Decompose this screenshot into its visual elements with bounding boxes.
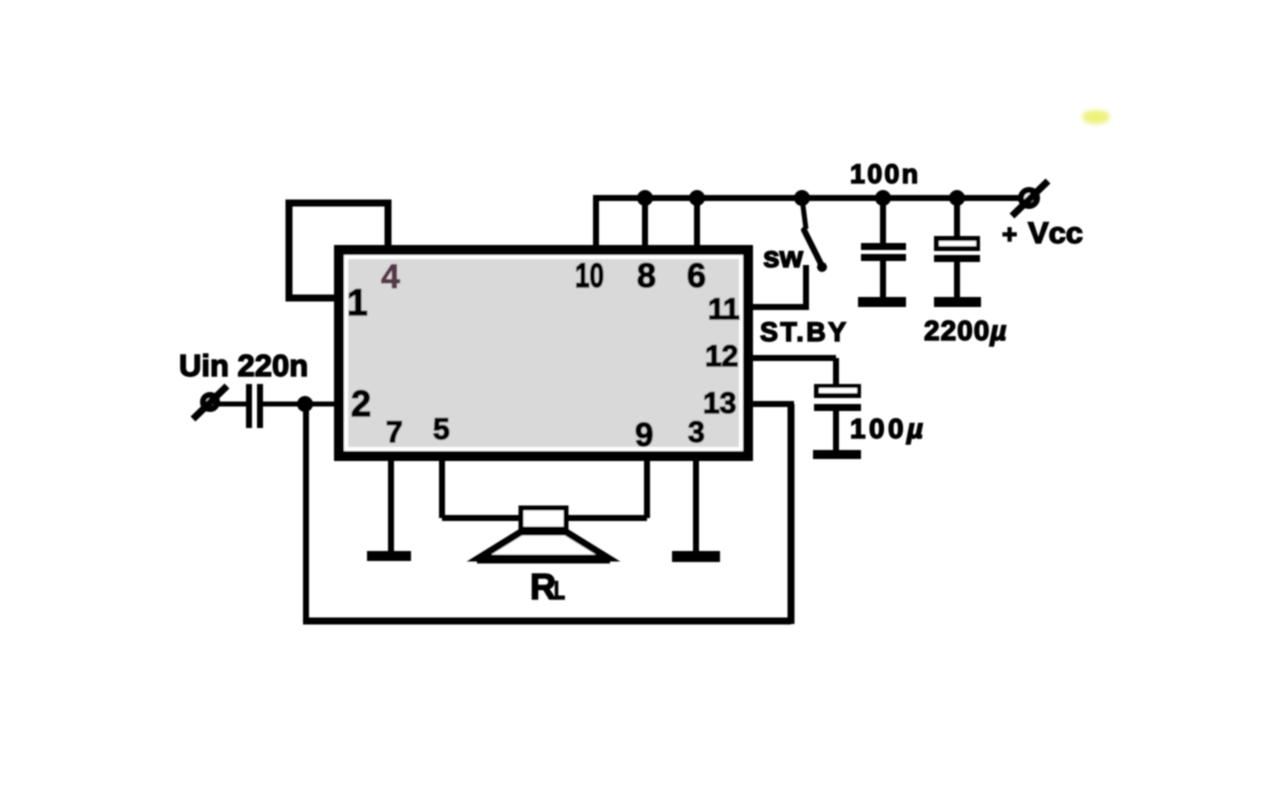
wire: pin 3 down bbox=[693, 456, 699, 553]
wire: switch to pin 11 bbox=[750, 265, 809, 307]
wire: pin 6 stub bbox=[694, 195, 700, 250]
terminal +Vcc bbox=[1021, 190, 1037, 206]
capacitor C 100n plates bbox=[861, 243, 906, 250]
node: junction at switch bbox=[794, 190, 810, 206]
wire: junction down to bottom rail bbox=[303, 404, 309, 621]
node: input junction bbox=[297, 396, 313, 412]
wire: 100n top lead bbox=[880, 198, 886, 245]
ground at 100n bbox=[858, 297, 906, 307]
yellow artifact blob bbox=[1082, 110, 1110, 124]
IC U1 body bbox=[334, 245, 753, 461]
svg-text:10: 10 bbox=[575, 257, 604, 295]
svg-text:+: + bbox=[1002, 219, 1017, 249]
speaker RL driver box bbox=[521, 508, 566, 529]
wire: pin 13 stub bbox=[750, 401, 794, 407]
node: junction at 2200u bbox=[949, 190, 965, 206]
wire: input to capacitor bbox=[216, 402, 247, 407]
svg-text:8: 8 bbox=[637, 257, 656, 295]
svg-text:13: 13 bbox=[703, 387, 736, 420]
wire: 100n bottom lead bbox=[880, 261, 886, 300]
switch SW arm bbox=[804, 230, 822, 266]
svg-text:1: 1 bbox=[347, 282, 368, 323]
terminal Uin bbox=[203, 395, 217, 409]
svg-text:Uin 220n: Uin 220n bbox=[179, 348, 308, 383]
svg-text:11: 11 bbox=[708, 293, 740, 326]
ground at pin 3 bbox=[672, 551, 720, 562]
wire: pin 9 to speaker bbox=[564, 456, 647, 518]
svg-text:2: 2 bbox=[351, 383, 371, 424]
wire: 2200u top lead bbox=[954, 198, 960, 238]
svg-text:4: 4 bbox=[381, 258, 400, 296]
switch SW top lead bbox=[802, 198, 806, 229]
svg-text:100µ: 100µ bbox=[850, 413, 926, 444]
wire: top supply rail bbox=[596, 195, 1019, 201]
ground at pin 7 bbox=[367, 551, 411, 561]
svg-text:Vcc: Vcc bbox=[1028, 217, 1083, 250]
ground at 2200u bbox=[934, 297, 981, 307]
capacitor C 2200u electrolytic plate bbox=[934, 236, 980, 251]
svg-text:3: 3 bbox=[688, 416, 705, 449]
wire: 2200u bottom lead bbox=[954, 262, 960, 300]
node: junction at pin 6 bbox=[689, 190, 705, 206]
wire: pin 12 to 100u bbox=[748, 358, 836, 386]
speaker RL cone bbox=[479, 532, 608, 558]
svg-text:sw: sw bbox=[763, 241, 804, 274]
wire: pin 5 to speaker bbox=[442, 456, 522, 518]
svg-text:2200µ: 2200µ bbox=[924, 315, 1007, 346]
wire: pin 8 stub bbox=[642, 195, 648, 250]
svg-text:ST.BY: ST.BY bbox=[760, 317, 849, 347]
wire: feedback loop pin1 to pin4 bbox=[289, 203, 388, 298]
svg-text:6: 6 bbox=[687, 257, 706, 295]
node: junction at 100n bbox=[875, 190, 891, 206]
svg-text:9: 9 bbox=[635, 416, 653, 453]
ground at 100u bbox=[813, 450, 861, 459]
svg-text:5: 5 bbox=[433, 413, 450, 446]
wire: pin 10 stub bbox=[593, 195, 599, 250]
svg-text:12: 12 bbox=[705, 340, 738, 373]
wire: pin 7 down bbox=[388, 456, 394, 553]
capacitor C 100u electrolytic plate bbox=[814, 384, 861, 398]
capacitor C 220n plates bbox=[246, 384, 252, 428]
wire: bottom rail bbox=[303, 618, 791, 625]
svg-text:100n: 100n bbox=[850, 159, 920, 189]
svg-text:R: R bbox=[530, 566, 556, 607]
wire: bottom rail riser to pin 13 bbox=[788, 404, 795, 624]
node: junction at pin 8 bbox=[637, 190, 653, 206]
svg-text:7: 7 bbox=[386, 416, 403, 449]
wire: capacitor to pin 2 bbox=[263, 402, 336, 407]
wire: 100u bottom lead bbox=[833, 411, 839, 452]
svg-text:L: L bbox=[554, 577, 565, 605]
